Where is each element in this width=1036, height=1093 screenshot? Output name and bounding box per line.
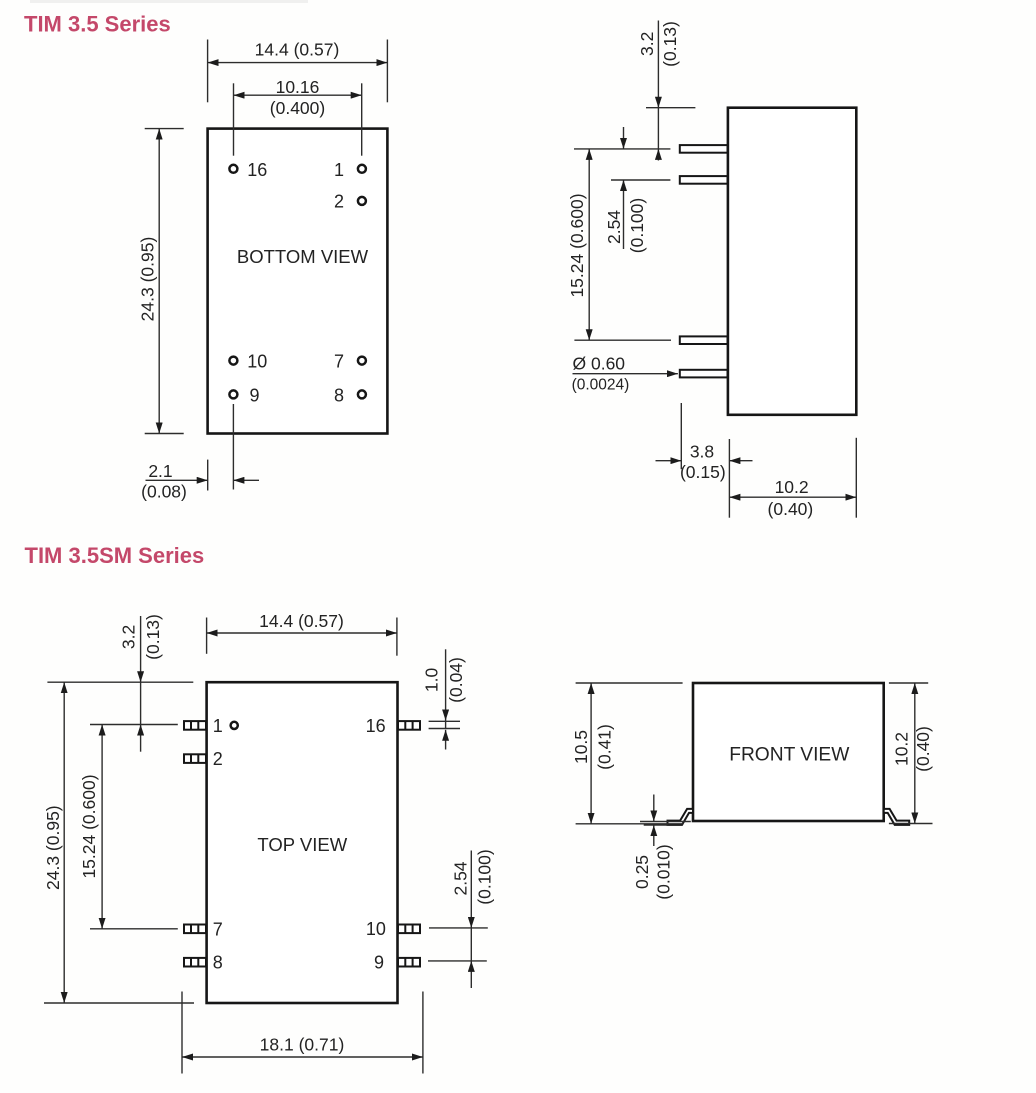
dimension 2.54 lower shaft with arrow [623, 180, 625, 249]
heading TIM 3.5SM Series [25, 543, 205, 568]
svg-text:2: 2 [334, 192, 344, 212]
dimension text 10.2 [775, 477, 809, 497]
dimension 1.0 lower shaft [445, 730, 447, 750]
extension line body right for 10.2 [855, 438, 857, 518]
body outline side view [728, 108, 856, 415]
tick body top side view [646, 107, 695, 109]
svg-text:24.3 (0.95): 24.3 (0.95) [43, 805, 63, 890]
svg-text:(0.010): (0.010) [654, 844, 674, 899]
svg-text:10.5: 10.5 [571, 730, 591, 764]
tick body bottom top view [44, 1002, 194, 1004]
left gull-wing lead [668, 809, 694, 825]
pin 8 side lead [680, 336, 728, 344]
dimension line 10.2 front view [914, 683, 916, 824]
svg-text:1.0: 1.0 [422, 668, 442, 693]
dimension 3.2 upper shaft with arrow [657, 21, 659, 108]
svg-text:(0.08): (0.08) [141, 482, 187, 502]
extension line pin9 column for 2.1 [232, 404, 234, 490]
pin 16 smd pad [398, 721, 420, 730]
svg-text:TIM 3.5 Series: TIM 3.5 Series [24, 12, 171, 37]
extension line 18.1 right [422, 992, 424, 1074]
dimension 0.25 lower shaft [653, 825, 655, 846]
pin 10 smd pad [398, 925, 420, 934]
svg-text:(0.0024): (0.0024) [572, 377, 630, 394]
dimension text (0.100) rotated top view [474, 849, 494, 904]
pin 2 hole [358, 197, 366, 205]
pin label 8 top view [213, 953, 223, 973]
dimension 3.2 connector line [657, 108, 659, 149]
svg-text:7: 7 [334, 352, 344, 372]
tick pin row 2 side view [611, 179, 670, 181]
svg-text:15.24 (0.600): 15.24 (0.600) [79, 774, 99, 878]
tick seating plane left front view [576, 823, 684, 825]
pin label 9 top view [374, 953, 384, 973]
extension line 14.4 left [207, 40, 209, 103]
pin label 16 top view [366, 716, 386, 736]
svg-text:10.2: 10.2 [892, 732, 912, 766]
tick pin row 1 top view [90, 724, 178, 726]
pin label 7 top view [213, 919, 223, 939]
dimension text 24.3 (0.95) rotated top view [43, 805, 63, 890]
svg-text:(0.41): (0.41) [595, 724, 615, 770]
extension line 14.4 right top view [396, 618, 398, 656]
pin label 8 [334, 385, 344, 405]
svg-text:2.54: 2.54 [450, 861, 470, 895]
pin 1 smd pad [184, 721, 206, 730]
svg-text:3.2: 3.2 [118, 625, 138, 649]
pin label 2 top view [213, 749, 223, 769]
dimension text 24.3 (0.95) rotated [138, 237, 158, 322]
dimension text (0.100) rotated [627, 198, 647, 253]
dimension line 10.2 [729, 496, 856, 498]
dimension arrow 3.8 left [656, 460, 682, 462]
view label TOP VIEW [257, 834, 347, 855]
pin 2 smd pad [184, 754, 206, 763]
pin 9 smd pad [398, 958, 420, 967]
dimension text (0.40) [768, 499, 814, 519]
dimension text 14.4 (0.57) top view [259, 611, 344, 631]
tick lead top 0.25 [640, 821, 691, 823]
dimension text 1.0 rotated [422, 668, 442, 693]
svg-text:10: 10 [366, 919, 386, 939]
pin 1 side lead [680, 145, 728, 153]
pin 10 hole [229, 357, 237, 365]
dimension text (0.13) rotated top view [143, 614, 163, 660]
dimension 3.2 connector top view [140, 682, 142, 724]
pin 7 smd pad [184, 925, 206, 934]
dimension arrow 2.1 right [233, 479, 259, 481]
right gull-wing lead [884, 809, 910, 825]
svg-text:8: 8 [213, 953, 223, 973]
dimension line 10.5 [590, 683, 592, 824]
svg-text:15.24 (0.600): 15.24 (0.600) [567, 193, 587, 297]
body outline BOTTOM VIEW [208, 129, 388, 434]
dimension text (0.04) rotated [446, 657, 466, 703]
pin label 9 [250, 385, 260, 405]
tick 24.3 top [145, 128, 184, 130]
svg-text:24.3 (0.95): 24.3 (0.95) [138, 237, 158, 322]
tick body top left front view [576, 682, 683, 684]
svg-text:1: 1 [213, 716, 223, 736]
pin label 7 [334, 352, 344, 372]
svg-text:(0.04): (0.04) [446, 657, 466, 703]
pin label 16 [247, 160, 267, 180]
svg-text:(0.40): (0.40) [913, 726, 933, 772]
pin 9 side lead [680, 370, 728, 378]
dimension text (0.0024) [572, 377, 630, 394]
svg-text:(0.15): (0.15) [680, 462, 726, 482]
dimension 2.54 upper shaft with arrow [623, 127, 625, 149]
pin 1 index dot [231, 722, 238, 729]
extension line 14.4 left top view [206, 618, 208, 654]
dimension text 18.1 (0.71) [260, 1035, 345, 1055]
dimension text 15.24 (0.600) rotated [567, 193, 587, 297]
svg-text:8: 8 [334, 385, 344, 405]
dimension line 10.16 [234, 94, 362, 96]
svg-text:16: 16 [247, 160, 267, 180]
svg-text:TOP VIEW: TOP VIEW [257, 834, 347, 855]
dimension 3.2 upper shaft top view [140, 616, 142, 682]
svg-text:10.16: 10.16 [276, 77, 320, 97]
svg-text:9: 9 [250, 385, 260, 405]
extension line 10.16 left [233, 83, 235, 155]
extension line 18.1 left [181, 992, 183, 1074]
svg-text:(0.100): (0.100) [474, 849, 494, 904]
dimension text 2.54 rotated [604, 210, 624, 244]
tick seating plane right front view [889, 823, 933, 825]
dimension line 24.3 vertical [158, 129, 160, 434]
pin label 10 [247, 352, 267, 372]
dimension text 10.2 rotated front view [892, 732, 912, 766]
dimension line 15.24 vertical [588, 149, 590, 340]
dimension text 3.2 rotated [637, 32, 657, 56]
svg-text:(0.400): (0.400) [270, 98, 325, 118]
svg-text:3.2: 3.2 [637, 32, 657, 56]
tick pin row 1 side view [574, 148, 670, 150]
dimension 2.54 upper shaft top view [470, 851, 472, 928]
dimension text diameter 0.60 [573, 353, 626, 373]
svg-text:BOTTOM VIEW: BOTTOM VIEW [237, 246, 369, 267]
dimension text 2.1 [148, 461, 172, 481]
svg-text:2.54: 2.54 [604, 210, 624, 244]
svg-text:2: 2 [213, 749, 223, 769]
dimension text (0.400) [270, 98, 325, 118]
svg-text:16: 16 [366, 716, 386, 736]
dimension text 14.4 (0.57) [255, 40, 340, 60]
leader line pin diameter [573, 373, 678, 375]
svg-text:(0.13): (0.13) [660, 21, 680, 67]
extension line body left edge for 2.1 [207, 460, 209, 491]
dimension text 10.5 rotated [571, 730, 591, 764]
pin label 2 [334, 192, 344, 212]
view label BOTTOM VIEW [237, 246, 369, 267]
svg-text:2.1: 2.1 [148, 461, 172, 481]
body outline TOP VIEW [207, 682, 398, 1003]
dimension line 15.24 top view [101, 725, 103, 929]
dimension arrow 3.8 right [729, 460, 752, 462]
dimension text (0.13) rotated [660, 21, 680, 67]
pin 8 smd pad [184, 958, 206, 967]
svg-text:(0.13): (0.13) [143, 614, 163, 660]
svg-text:14.4 (0.57): 14.4 (0.57) [259, 611, 344, 631]
tick lead bottom 0.25 [644, 824, 669, 826]
tick pin row 8 side view [574, 339, 671, 341]
svg-text:3.8: 3.8 [690, 442, 714, 462]
dimension 1.0 upper shaft [445, 649, 447, 720]
svg-text:FRONT VIEW: FRONT VIEW [729, 744, 850, 765]
heading TIM 3.5 Series [24, 12, 171, 37]
dimension line 14.4 top view [207, 632, 397, 634]
pin 9 hole [229, 390, 237, 398]
tick pin 16 top edge [429, 720, 460, 722]
svg-text:TIM 3.5SM Series: TIM 3.5SM Series [25, 543, 205, 568]
extension line 10.16 right [361, 83, 363, 155]
svg-text:10: 10 [247, 352, 267, 372]
svg-text:Ø 0.60: Ø 0.60 [573, 353, 626, 373]
dimension 0.25 upper shaft [653, 795, 655, 822]
dimension 2.54 connector top view [470, 928, 472, 961]
pin label 1 [334, 160, 344, 180]
pin 16 hole [229, 165, 237, 173]
dimension text 2.54 rotated top view [450, 861, 470, 895]
svg-text:18.1 (0.71): 18.1 (0.71) [260, 1035, 345, 1055]
svg-text:14.4 (0.57): 14.4 (0.57) [255, 40, 340, 60]
tick 24.3 bottom [145, 433, 184, 435]
dimension text 0.25 rotated [632, 855, 652, 889]
dimension text 3.8 [690, 442, 714, 462]
tick pin 16 bottom edge [429, 728, 460, 730]
pin 7 hole [358, 357, 366, 365]
svg-text:7: 7 [213, 919, 223, 939]
dimension 2.54 lower shaft top view [470, 961, 472, 988]
dimension text 10.16 [276, 77, 320, 97]
tick body top shared top view [47, 681, 193, 683]
extension line pin tip for 3.8 [680, 403, 682, 469]
dimension line 24.3 top view [63, 682, 65, 1003]
svg-text:(0.40): (0.40) [768, 499, 814, 519]
pin label 10 top view [366, 919, 386, 939]
dimension 3.2 lower shaft with arrow [657, 149, 659, 161]
extension line body left for 3.8 and 10.2 [728, 439, 730, 518]
pin 8 hole [358, 390, 366, 398]
svg-text:1: 1 [334, 160, 344, 180]
extension line 14.4 right [386, 40, 388, 103]
dimension 1.0 connector [445, 721, 447, 730]
svg-text:10.2: 10.2 [775, 477, 809, 497]
svg-text:9: 9 [374, 953, 384, 973]
dimension text 15.24 (0.600) rotated top view [79, 774, 99, 878]
tick pin row 7 top view [90, 928, 178, 930]
dimension line 14.4 [208, 62, 388, 64]
dimension text (0.15) [680, 462, 726, 482]
svg-text:0.25: 0.25 [632, 855, 652, 889]
dimension text (0.010) rotated [654, 844, 674, 899]
dimension 3.2 lower shaft top view [140, 725, 142, 752]
view label FRONT VIEW [729, 744, 850, 765]
stray cropped text at top edge [30, 0, 308, 3]
tick body top right front view [889, 682, 928, 684]
pin 1 hole [358, 165, 366, 173]
dimension text (0.40) rotated front view [913, 726, 933, 772]
dimension arrow 2.1 left [146, 479, 208, 481]
dimension text (0.08) [141, 482, 187, 502]
svg-text:(0.100): (0.100) [627, 198, 647, 253]
tick pin row 9 right [428, 960, 487, 962]
tick pin row 10 right [429, 927, 488, 929]
pin 2 side lead [680, 176, 728, 184]
pin label 1 top view [213, 716, 223, 736]
dimension line 18.1 [182, 1056, 423, 1058]
body outline FRONT VIEW [693, 683, 884, 821]
dimension text (0.41) rotated [595, 724, 615, 770]
dimension text 3.2 rotated top view [118, 625, 138, 649]
